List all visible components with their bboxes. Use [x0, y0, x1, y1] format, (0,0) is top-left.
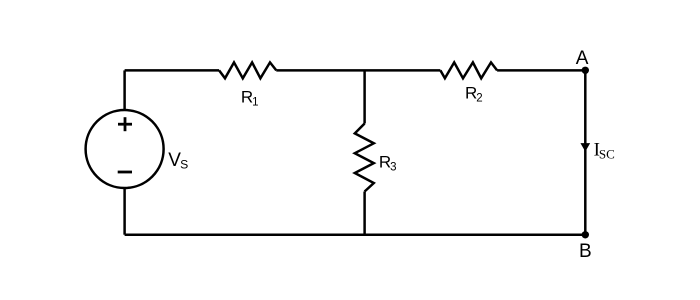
- svg-text:B: B: [579, 241, 592, 262]
- svg-text:A: A: [576, 48, 589, 69]
- node B: [582, 231, 589, 238]
- wire top: left corner to R1: [125, 69, 220, 72]
- resistor R2: [440, 62, 497, 78]
- voltage source VS circle: [86, 110, 164, 188]
- wire right: node A down to node B: [584, 70, 587, 235]
- plus sign: [118, 117, 132, 131]
- wire left: top corner down to source: [123, 70, 126, 110]
- arrowhead ISC (current direction): [581, 144, 589, 151]
- wire top: R2 to node A: [497, 69, 585, 72]
- resistor R1: [219, 62, 276, 78]
- wire left: source bottom to bottom corner: [123, 188, 126, 235]
- svg-text:R2: R2: [465, 84, 483, 105]
- svg-text:R3: R3: [379, 153, 397, 174]
- svg-text:R1: R1: [241, 88, 259, 109]
- wire middle branch: top junction down to R3: [363, 70, 366, 123]
- wire middle branch: R3 down to bottom junction: [363, 192, 366, 235]
- svg-text:ISC: ISC: [594, 140, 615, 162]
- resistor R3: [355, 124, 374, 192]
- wire top: R1 to R2 (through middle junction): [276, 69, 440, 72]
- minus sign: [118, 171, 132, 174]
- svg-text:VS: VS: [168, 150, 188, 172]
- node A: [582, 67, 589, 74]
- wire bottom: left corner to node B: [125, 233, 586, 236]
